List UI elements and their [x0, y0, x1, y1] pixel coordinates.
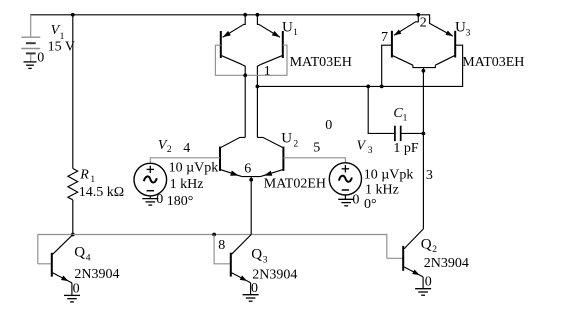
ground (Q2)	[415, 289, 431, 296]
node 8 label	[218, 238, 225, 253]
source V3	[329, 163, 361, 200]
ground (V3)	[338, 199, 354, 206]
wire U2 left base to V2	[150, 158, 220, 163]
svg-text:10 µVpk: 10 µVpk	[364, 168, 414, 183]
wire mirror base rail (gray)	[38, 235, 387, 264]
svg-text:180°: 180°	[167, 194, 194, 209]
junction dot node 6	[249, 178, 253, 182]
net 0 (Q4 ground)	[73, 282, 80, 297]
svg-text:15 V: 15 V	[48, 40, 75, 55]
wire net to U3 bases	[257, 45, 462, 86]
junction dot C1 to node 3	[422, 132, 426, 136]
svg-text:3: 3	[263, 255, 268, 265]
value 10 uVpk (V2)	[169, 161, 219, 176]
svg-text:1: 1	[403, 114, 408, 124]
value 2N3904 (Q2)	[424, 256, 469, 271]
junction dot R1/Q4 collector/base rail	[71, 233, 75, 237]
net 0 label (upper)	[325, 118, 332, 133]
label Q2	[421, 236, 438, 255]
svg-text:4: 4	[86, 253, 91, 263]
wire U3 left base drop	[382, 45, 392, 86]
svg-text:Q: Q	[421, 236, 432, 252]
junction dot node 7 net at U1 right collector	[256, 85, 260, 89]
value 15 V	[48, 40, 75, 55]
svg-text:0: 0	[156, 192, 163, 207]
svg-text:Q: Q	[74, 244, 85, 260]
label R1	[79, 168, 95, 186]
junction dot U1 left collector to bases	[243, 73, 247, 77]
wire U1 right collector down to U2	[256, 86, 258, 137]
svg-text:R: R	[79, 168, 89, 183]
node 4 label	[183, 141, 190, 156]
value 180 deg (V2)	[167, 194, 194, 209]
label V1	[51, 23, 65, 42]
junction dot C1 branch	[366, 85, 370, 89]
value MAT03EH (U1)	[290, 55, 352, 70]
svg-text:1: 1	[264, 64, 271, 79]
label C1	[393, 106, 407, 124]
ground (Q4)	[64, 295, 80, 302]
svg-text:1: 1	[90, 175, 95, 185]
wire Q2 base stub	[387, 257, 403, 259]
value 2N3904 (Q4)	[74, 267, 119, 282]
transistor Q4	[52, 235, 73, 296]
value MAT02EH (U2)	[264, 176, 326, 191]
label U2	[281, 131, 298, 150]
net 0 (V2 ground)	[156, 192, 163, 207]
node 6 label	[244, 162, 251, 177]
svg-text:4: 4	[183, 141, 190, 156]
svg-text:0: 0	[352, 193, 359, 208]
wire U2 emitter junction (node 6)	[242, 176, 261, 178]
svg-text:5: 5	[313, 141, 320, 156]
svg-text:Q: Q	[251, 246, 262, 262]
junction dot U3 collectors	[422, 69, 426, 73]
value 0 deg (V3)	[364, 197, 377, 212]
svg-text:8: 8	[218, 238, 225, 253]
node 3 label	[426, 168, 433, 183]
svg-text:MAT02EH: MAT02EH	[264, 176, 326, 191]
transistor Q3	[231, 235, 251, 295]
value 1 kHz (V3)	[365, 183, 399, 198]
svg-text:MAT03EH: MAT03EH	[462, 55, 524, 70]
node 2 label	[420, 16, 427, 31]
svg-text:2N3904: 2N3904	[424, 256, 469, 271]
battery V1	[21, 15, 40, 62]
wire V1 rail to R1	[72, 15, 74, 169]
label Q3	[251, 246, 267, 265]
svg-text:1 pF: 1 pF	[393, 141, 419, 156]
wire U1 left collector down to U2	[244, 75, 246, 137]
op-amp pair U3 MAT03EH : right PNP transistor	[418, 15, 455, 65]
junction dot Q3 base riser	[212, 233, 216, 237]
wire Q3 base riser (gray)	[214, 235, 230, 264]
label Q4	[74, 244, 91, 263]
junction dot U3 left base	[380, 85, 384, 89]
svg-text:10 µVpk: 10 µVpk	[169, 161, 219, 176]
svg-text:U: U	[282, 19, 293, 35]
junction dot U3 emitters on rail (node 2)	[416, 13, 420, 17]
svg-text:0: 0	[37, 51, 44, 66]
svg-text:1 kHz: 1 kHz	[170, 177, 204, 192]
ground (V1)	[24, 62, 37, 69]
svg-text:V: V	[357, 138, 367, 153]
value MAT03EH (U3)	[462, 55, 524, 70]
label U3	[455, 20, 471, 39]
resistor R1	[68, 169, 78, 200]
node 7 label	[381, 30, 388, 45]
svg-text:1 kHz: 1 kHz	[365, 183, 399, 198]
svg-text:6: 6	[244, 162, 251, 177]
svg-text:U: U	[281, 131, 292, 147]
wire U2 right base to V3	[283, 158, 345, 163]
svg-text:0: 0	[251, 281, 258, 296]
svg-text:3: 3	[426, 168, 433, 183]
value 1 kHz (V2)	[170, 177, 204, 192]
svg-text:U: U	[455, 20, 466, 36]
svg-text:2N3904: 2N3904	[252, 268, 297, 283]
svg-text:0: 0	[73, 282, 80, 297]
value 2N3904 (Q3)	[252, 268, 297, 283]
op-amp pair U3 MAT03EH : left PNP transistor	[392, 15, 435, 68]
source V2	[134, 163, 167, 198]
wire U1 base loop (gray)	[215, 45, 287, 75]
svg-text:MAT03EH: MAT03EH	[290, 55, 352, 70]
svg-text:0: 0	[325, 118, 332, 133]
wire R1 to base rail	[72, 200, 74, 235]
svg-text:3: 3	[466, 29, 471, 39]
op-amp pair U2 MAT02EH : left NPN transistor	[220, 137, 245, 176]
op-amp pair U2 MAT02EH : right NPN transistor	[257, 137, 283, 176]
svg-text:2: 2	[420, 16, 427, 31]
label V2	[158, 138, 172, 155]
svg-text:7: 7	[381, 30, 388, 45]
wire Q4 base stub	[38, 263, 51, 265]
label V3	[357, 138, 373, 156]
capacitor C1	[368, 86, 423, 141]
svg-text:0: 0	[425, 275, 432, 290]
svg-text:1: 1	[293, 28, 298, 38]
ground (V2)	[142, 199, 158, 206]
svg-text:2: 2	[432, 245, 437, 255]
value 14.5 kOhm	[79, 185, 124, 200]
value 1 pF	[393, 141, 419, 156]
svg-text:14.5 kΩ: 14.5 kΩ	[79, 185, 124, 200]
net 0 (Q3 ground)	[251, 281, 258, 296]
label U1	[282, 19, 298, 38]
node 1 label	[264, 64, 271, 79]
junction dot U1 right emitter on rail	[256, 13, 260, 17]
wire top +15V rail	[30, 14, 418, 16]
svg-text:0°: 0°	[364, 197, 377, 212]
svg-text:2: 2	[293, 140, 298, 150]
junction dot U1 left emitter on rail	[243, 13, 247, 17]
svg-text:2: 2	[167, 145, 172, 155]
node dot +15V/R1 junction	[71, 13, 75, 17]
net 0 (V1 ground)	[37, 51, 44, 66]
op-amp pair U1 MAT03EH : left PNP transistor	[221, 15, 245, 76]
net 0 (V3 ground)	[352, 193, 359, 208]
node 5 label	[313, 141, 320, 156]
svg-text:2N3904: 2N3904	[74, 267, 119, 282]
ground (Q3)	[243, 295, 259, 302]
op-amp pair U1 MAT03EH : right PNP transistor	[257, 15, 282, 87]
value 10 uVpk (V3)	[364, 168, 414, 183]
net 0 (Q2 ground)	[425, 275, 432, 290]
wire node 3 : U3 collectors down to Q2	[422, 68, 424, 229]
transistor Q2	[403, 229, 423, 289]
svg-text:3: 3	[368, 146, 373, 156]
